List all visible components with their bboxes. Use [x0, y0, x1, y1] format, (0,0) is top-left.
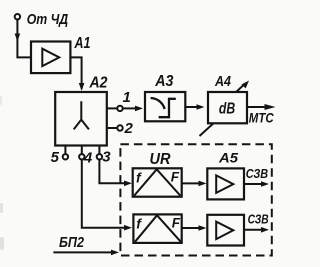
- arrowhead MTC: [265, 104, 276, 110]
- amplifier A1 box: [31, 42, 70, 74]
- svg-text:А3: А3: [154, 73, 173, 90]
- filter A3 step symbol: [159, 99, 176, 117]
- arrowhead БП2: [111, 250, 119, 256]
- arrowhead into amp2: [199, 225, 207, 231]
- attenuator A4 variable diagonal lower segment: [200, 124, 214, 136]
- filter A3 box: [145, 92, 185, 121]
- stub: A2 output 2: [107, 127, 117, 129]
- arrowhead into A2: [79, 83, 85, 91]
- node circle 1: [117, 106, 122, 111]
- svg-text:От ЧД: От ЧД: [27, 11, 69, 28]
- splitter A2 box: [55, 92, 107, 146]
- svg-text:А1: А1: [74, 35, 91, 52]
- wire: БП2 into dashed unit: [53, 251, 112, 253]
- svg-text:СЗВ: СЗВ: [248, 212, 269, 227]
- arrowhead into A4: [197, 104, 205, 110]
- wire: A4 to MTC output: [247, 106, 267, 108]
- bandpass filter1 diagonals: [134, 169, 180, 195]
- wire: input terminal down to A1 (with mid arrow): [17, 20, 31, 58]
- wire: A3 to A4: [185, 106, 197, 108]
- scan smudge left edge 3: [0, 237, 4, 250]
- arrowhead СЗВ row1: [261, 181, 269, 187]
- svg-text:МТС: МТС: [249, 110, 274, 125]
- svg-text:СЗВ: СЗВ: [246, 166, 268, 181]
- arrowhead into filter2: [124, 225, 132, 231]
- splitter A2 trident symbol: [74, 101, 89, 129]
- arrowhead on input wire: [15, 34, 21, 42]
- amplifier A5 row1 box: [207, 168, 244, 199]
- svg-text:3: 3: [102, 148, 111, 165]
- svg-text:БП2: БП2: [59, 234, 85, 251]
- wire: filter1 to A5 row1: [182, 182, 200, 184]
- node circle 2: [117, 125, 122, 130]
- bandpass filter1 box: [133, 168, 182, 196]
- wire: A1 to A2: [70, 57, 81, 88]
- filter A3 curve symbol: [151, 98, 165, 109]
- svg-text:UR: UR: [150, 151, 171, 168]
- wire: node 4 to filter UR row2: [82, 160, 125, 228]
- wire: amp1 to СЗВ output: [244, 183, 262, 185]
- svg-text:А5: А5: [218, 149, 238, 165]
- svg-text:5: 5: [51, 149, 60, 166]
- node: input terminal circle (От ЧД): [15, 14, 20, 19]
- svg-text:4: 4: [83, 149, 93, 166]
- arrowhead into filter1: [124, 181, 132, 187]
- svg-text:2: 2: [124, 120, 134, 137]
- arrowhead into amp1: [199, 181, 207, 187]
- node circle 4: [79, 154, 84, 159]
- svg-text:dB: dB: [219, 101, 235, 118]
- bandpass filter2 box: [133, 214, 181, 243]
- scan smudge left edge 1: [0, 96, 2, 105]
- node circle 5: [63, 154, 68, 159]
- amplifier A1 triangle: [42, 49, 59, 66]
- arrowhead variable diagonal: [242, 81, 250, 89]
- stub: A2 output 5: [64, 146, 66, 155]
- stub: A2 output 1: [107, 107, 117, 109]
- bandpass filter2 diagonals: [135, 215, 181, 242]
- svg-text:F: F: [171, 169, 180, 184]
- wire: node 1 to A3: [123, 107, 136, 109]
- arrowhead into A3: [135, 106, 143, 112]
- stub: A2 output 4: [81, 146, 83, 155]
- node circle 3: [97, 154, 102, 159]
- wire: filter2 to A5 row2: [182, 227, 200, 229]
- attenuator A4 box: [208, 92, 247, 123]
- arrowhead СЗВ row2: [261, 227, 269, 233]
- scan smudge left edge 2: [0, 203, 3, 213]
- amplifier A5 row2 triangle: [216, 222, 233, 240]
- stub: A2 output 3: [98, 146, 100, 155]
- wire: node 3 to filter UR row1: [99, 160, 125, 184]
- svg-text:1: 1: [123, 89, 131, 106]
- amplifier A5 row1 triangle: [216, 175, 233, 193]
- amplifier A5 row2 box: [207, 215, 244, 246]
- dashed unit enclosure: [120, 144, 271, 255]
- svg-text:F: F: [172, 215, 181, 230]
- wire: amp2 to СЗВ output: [244, 229, 262, 231]
- attenuator A4 variable diagonal upper segment with arrow: [237, 83, 246, 91]
- svg-text:А4: А4: [214, 74, 231, 90]
- svg-text:А2: А2: [89, 75, 108, 92]
